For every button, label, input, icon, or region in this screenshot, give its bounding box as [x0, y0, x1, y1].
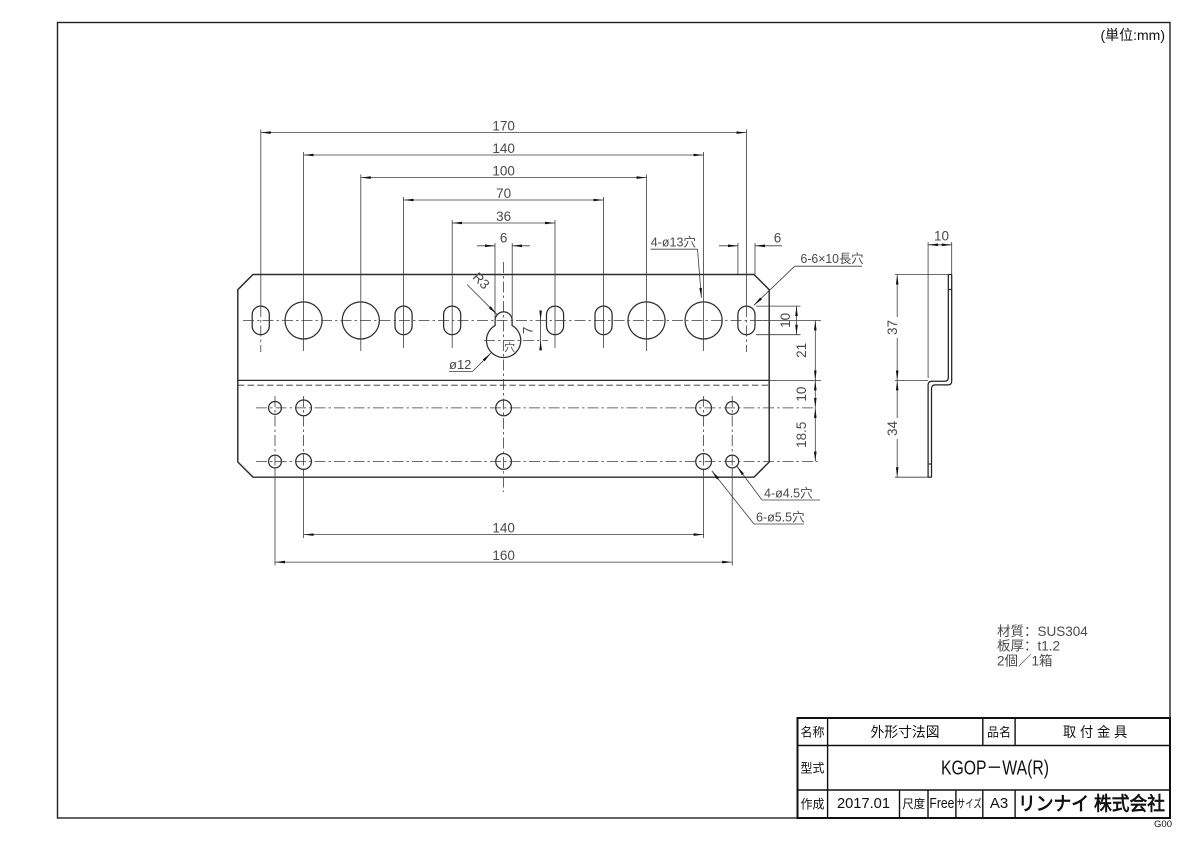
hole ø13 far-left [285, 302, 322, 339]
hole ø13 mid-right [628, 302, 665, 339]
dimension 100 [361, 177, 647, 179]
hole ø5.5 lower row x=-70 [296, 454, 312, 470]
extension line [303, 152, 305, 351]
dimension 140 bottom [304, 534, 704, 536]
extension lines bottom dims [303, 471, 305, 538]
leader 4-ø4.5穴 [762, 499, 820, 501]
side view hole edge ticks [948, 289, 951, 291]
svg-text:2017.01: 2017.01 [837, 795, 890, 812]
vertical centerline bottom hole pair [274, 396, 276, 471]
hole ø5.5 upper row x=0 [496, 400, 512, 416]
svg-text:板厚：t1.2: 板厚：t1.2 [997, 639, 1060, 654]
side view sheet profile [928, 275, 948, 478]
dimension 36 [452, 222, 555, 224]
hole ø4.5 upper row x=80 [726, 401, 739, 414]
svg-text:6: 6 [500, 230, 508, 245]
svg-text:18.5: 18.5 [794, 422, 809, 448]
svg-text:10: 10 [934, 228, 949, 243]
svg-text:材質：SUS304: 材質：SUS304 [997, 624, 1088, 639]
svg-text:6-6×10長穴: 6-6×10長穴 [801, 251, 864, 266]
dimension 21 [814, 320, 816, 380]
slot 6x10 left-inner [395, 306, 412, 335]
svg-text:10: 10 [794, 387, 809, 402]
extension line [451, 220, 453, 348]
dimension 10 slot length [796, 306, 798, 335]
leader R3 [467, 285, 497, 315]
svg-text:4-ø4.5穴: 4-ø4.5穴 [764, 486, 813, 501]
svg-text:37: 37 [885, 320, 900, 335]
slot 6x10 right-center [547, 306, 564, 335]
dimension 10 side view [928, 244, 952, 246]
vertical centerline bottom hole pair [731, 396, 733, 471]
dimension 18.5 [814, 408, 816, 462]
svg-text:リンナイ 株式会社: リンナイ 株式会社 [1018, 792, 1165, 815]
dimension 6 keyhole width (outside arrows) [477, 245, 495, 247]
plate outline (front view) [238, 275, 769, 478]
leader 6-6x10長穴 [795, 265, 862, 267]
hole ø5.5 lower row x=70 [696, 454, 712, 470]
hole ø13 far-right [685, 302, 722, 339]
hole ø5.5 upper row x=-70 [296, 400, 312, 416]
bend line (hidden, dashed) [238, 384, 769, 386]
svg-text:Free: Free [929, 795, 954, 812]
hole ø4.5 lower row x=80 [726, 455, 739, 468]
extension line [646, 175, 648, 352]
extension line [745, 130, 747, 307]
centerline top row [243, 319, 769, 321]
svg-text:21: 21 [794, 343, 809, 358]
slot 6x10 leftmost [252, 306, 269, 335]
svg-text:A3: A3 [990, 795, 1008, 812]
svg-text:2個／1箱: 2個／1箱 [997, 653, 1053, 668]
centerline through leftmost slot [260, 306, 262, 352]
centerline through rightmost slot [745, 306, 747, 352]
slot 6x10 rightmost [738, 306, 755, 335]
svg-text:170: 170 [492, 118, 515, 133]
title block inner lines [798, 745, 1171, 747]
svg-text:KGOP－WA(R): KGOP－WA(R) [941, 758, 1049, 780]
hole ø4.5 upper row x=-80 [269, 401, 282, 414]
svg-text:外形寸法図: 外形寸法図 [871, 724, 940, 740]
svg-text:140: 140 [492, 141, 515, 156]
extension line [603, 197, 605, 348]
bend line (solid) [238, 379, 769, 381]
vertical symmetry axis [503, 262, 505, 492]
hole ø5.5 lower row x=0 [496, 454, 512, 470]
dimension 160 [275, 561, 732, 563]
keyhole (R3 top circle + ø12 bottom circle union) [486, 312, 520, 358]
centerline bottom row 2 [256, 461, 818, 463]
extension lines right slot width 6 [737, 243, 739, 275]
svg-text:取付金具: 取付金具 [1063, 724, 1131, 740]
svg-text:6: 6 [774, 230, 782, 245]
slot 6x10 left-center [444, 306, 461, 335]
leader 6-ø5.5穴 [754, 523, 804, 525]
dimension 6 right slot width (outside arrows) [719, 245, 738, 247]
centerline bottom row 1 [256, 407, 816, 409]
svg-text:(単位:mm): (単位:mm) [1100, 27, 1165, 43]
svg-text:160: 160 [492, 548, 515, 563]
svg-text:品名: 品名 [987, 725, 1011, 740]
title block outer frame [798, 718, 1171, 818]
svg-text:7: 7 [521, 327, 536, 335]
svg-text:尺度: 尺度 [902, 796, 925, 811]
extension lines slot length 10 [756, 305, 801, 307]
extension line [360, 175, 362, 352]
side view extension lines [927, 242, 929, 378]
svg-text:10: 10 [778, 313, 793, 328]
svg-text:70: 70 [496, 186, 511, 201]
keyhole ø12 horizontal centerline [484, 339, 548, 341]
dimension 7 (keyhole center offset, outside arrows) [540, 311, 542, 320]
dimension 34 [896, 380, 898, 418]
svg-text:名称: 名称 [801, 725, 825, 740]
dimension 37 [896, 275, 898, 318]
vertical centerline bottom hole pair [703, 396, 705, 471]
svg-text:140: 140 [492, 520, 515, 535]
dimension 140 top [304, 154, 704, 156]
svg-text:作成: 作成 [801, 798, 825, 812]
dimension 10 bend to row1 [814, 380, 816, 408]
slot 6x10 right-inner [595, 306, 612, 335]
hole ø5.5 upper row x=70 [696, 400, 712, 416]
vertical centerline bottom hole pair [303, 396, 305, 471]
extension line [260, 130, 262, 307]
svg-text:6-ø5.5穴: 6-ø5.5穴 [756, 510, 805, 525]
svg-text:ø12: ø12 [449, 357, 471, 372]
dimension 70 [404, 199, 604, 201]
svg-text:G00: G00 [1154, 819, 1172, 830]
extension lines keyhole width 6 [494, 243, 496, 318]
svg-text:サイズ: サイズ [957, 797, 982, 811]
svg-text:4-ø13穴: 4-ø13穴 [651, 234, 697, 249]
dimension 170 [261, 132, 747, 134]
extension line [703, 152, 705, 351]
hole ø4.5 lower row x=-80 [269, 455, 282, 468]
leader 4-ø13穴 [651, 248, 698, 250]
leader ø12 [449, 371, 473, 373]
extension line [554, 220, 556, 348]
svg-text:36: 36 [496, 209, 511, 224]
svg-text:穴: 穴 [504, 340, 515, 354]
hole ø13 mid-left [342, 302, 379, 339]
svg-text:34: 34 [885, 421, 900, 437]
extension line [403, 197, 405, 348]
svg-text:100: 100 [492, 163, 515, 178]
svg-text:型式: 型式 [801, 762, 825, 776]
